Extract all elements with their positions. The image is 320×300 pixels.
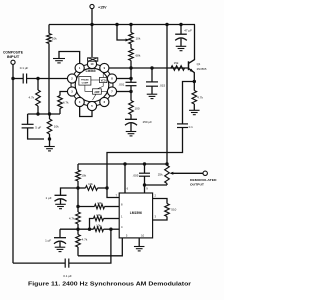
resistor 10k row A — [78, 182, 107, 190]
wire internal connections — [85, 73, 108, 100]
wire 10k to row A — [77, 181, 79, 188]
wire rail to R 10k upper — [48, 25, 50, 34]
wire 510 to pin 3 — [153, 217, 167, 221]
svg-text:47 µF: 47 µF — [184, 29, 192, 33]
svg-text:4.7k: 4.7k — [63, 100, 69, 104]
svg-text:5 µF: 5 µF — [35, 125, 41, 129]
resistor 4.7k input — [29, 90, 41, 106]
wire pin 9 line — [109, 67, 189, 69]
wire wiper to output — [171, 172, 203, 174]
junction rail/wiper — [115, 23, 118, 26]
svg-text:10k: 10k — [81, 174, 86, 178]
svg-text:9: 9 — [146, 187, 148, 191]
op-amp U1 LM565 body — [71, 64, 113, 106]
svg-text:10k: 10k — [97, 201, 102, 205]
svg-text:.001: .001 — [118, 82, 124, 86]
wire pin 2 to 510 — [153, 199, 167, 204]
wire pin 1 bracket — [59, 52, 80, 64]
wire pin 8 stub — [116, 78, 131, 80]
resistor 15k — [171, 61, 185, 71]
svg-text:10k: 10k — [96, 213, 101, 217]
svg-text:OUTPUT: OUTPUT — [190, 182, 204, 186]
wire cap to pin 2 — [27, 78, 68, 80]
node +15V supply terminal — [90, 4, 107, 24]
node B junction — [48, 112, 51, 115]
pin 1 U1 — [75, 63, 84, 72]
capacitor .001 — [118, 79, 136, 92]
potentiometer 10k — [129, 33, 141, 45]
svg-text:.005: .005 — [133, 173, 139, 177]
wire +15V rail — [49, 24, 195, 26]
resistor 510 — [165, 204, 177, 217]
transistor Q1 2N3565 — [189, 25, 207, 82]
pin labels U2 — [116, 187, 157, 238]
capacitor 1uF upper — [46, 195, 67, 204]
wire pin3 resistor to pin 3 — [60, 92, 68, 96]
pin 4 U1 — [75, 97, 84, 106]
junction carrier/bias row A — [105, 186, 108, 189]
svg-text:Q1: Q1 — [197, 62, 201, 66]
wire pot to 68k — [130, 44, 132, 49]
wire node B to pin3 resistor — [59, 109, 61, 115]
svg-text:1 µF: 1 µF — [45, 238, 51, 242]
wire node B line — [28, 113, 60, 115]
junction .015/pin9 — [150, 66, 153, 69]
wire node B down — [49, 114, 51, 119]
block amplifier — [93, 89, 102, 94]
wire +15 bus — [78, 163, 167, 165]
pin 8 U1 — [107, 74, 116, 83]
svg-text:INPUT: INPUT — [7, 55, 20, 59]
tab pin 10 index — [88, 58, 98, 61]
label COMPOSITE INPUT — [3, 50, 23, 59]
junction emitter node — [193, 80, 196, 83]
junction rail/47uF — [179, 23, 182, 26]
block VCO — [100, 77, 107, 82]
svg-text:.015: .015 — [159, 84, 165, 88]
svg-text:10k: 10k — [96, 224, 101, 228]
ground 47uF — [176, 46, 187, 50]
wire pin 7 stub — [116, 91, 131, 93]
wire row A to cap — [61, 188, 79, 195]
junction .005/pin9 LM1596 — [143, 183, 146, 186]
resistor 10k lower-left — [47, 119, 59, 134]
wire rail to pot — [130, 25, 132, 33]
capacitor 47uF — [175, 25, 192, 47]
wire 10k to ground node — [49, 134, 51, 139]
svg-text:68k: 68k — [136, 53, 141, 57]
ground pin 10 LM1596 — [134, 238, 145, 251]
junction row A — [76, 186, 79, 189]
junction pin7 node — [129, 90, 132, 93]
pin 5 U1 — [87, 101, 96, 110]
svg-text:LM565: LM565 — [86, 69, 96, 73]
svg-text:100: 100 — [135, 106, 140, 110]
wiper arrow — [126, 39, 130, 42]
svg-text:4.7k: 4.7k — [69, 217, 75, 221]
svg-text:LM1596: LM1596 — [130, 211, 142, 215]
resistor 10k upper-left — [47, 34, 57, 44]
svg-text:0.1 µF: 0.1 µF — [20, 66, 29, 70]
junction rail/long vertical — [165, 23, 168, 26]
pin 7 U1 — [107, 87, 116, 96]
wire long vertical +15 — [166, 25, 168, 165]
svg-text:7: 7 — [116, 193, 118, 197]
resistor 10k row C — [94, 224, 120, 232]
capacitor 0.1uF bottom — [63, 259, 72, 279]
wire left vertical — [12, 79, 14, 264]
resistor 4.7k ladder bottom — [76, 229, 88, 256]
svg-text:2N3565: 2N3565 — [197, 67, 207, 71]
capacitor 250uF — [125, 115, 152, 132]
svg-text:+15V: +15V — [98, 6, 107, 10]
wire pin1 riser — [90, 219, 94, 230]
svg-text:6: 6 — [127, 187, 129, 191]
ground divider — [44, 139, 55, 151]
pin 10 U1 — [87, 59, 96, 68]
wire row C — [60, 228, 94, 230]
svg-text:10k: 10k — [52, 37, 57, 41]
wire bottom rail right — [69, 229, 111, 263]
junction riser/row C — [88, 228, 91, 231]
svg-text:0.1 µF: 0.1 µF — [63, 274, 72, 278]
pin 3 U1 — [67, 87, 76, 96]
junction 4.7k/node B line — [36, 112, 39, 115]
label DEMODULATED OUTPUT — [190, 178, 217, 187]
svg-text:15k: 15k — [174, 61, 179, 65]
wire 10k to node B — [48, 44, 50, 115]
op-amp U2 LM1596 — [119, 193, 152, 238]
wire pin4 to pin5 — [80, 106, 92, 116]
wire pin 5 LM1596 — [78, 238, 122, 256]
svg-text:4.7k: 4.7k — [197, 95, 203, 99]
pin 6 U1 — [100, 97, 109, 106]
wire emitter to 0.1 cap — [183, 82, 195, 124]
pin 2 U1 — [67, 74, 76, 83]
wire input stem — [12, 64, 14, 78]
potentiometer 25k — [158, 165, 170, 185]
wiper arrow 25k — [170, 172, 174, 175]
svg-text:DEMODULATED: DEMODULATED — [190, 178, 217, 182]
wire input to cap — [13, 78, 23, 80]
wire pin 9 stub LM1596 — [144, 185, 146, 193]
capacitor .015 — [146, 68, 165, 94]
junction pin8 node — [129, 77, 132, 80]
svg-text:510: 510 — [171, 208, 176, 212]
resistor 10k row B — [78, 201, 119, 209]
resistor 10k ladder top — [76, 170, 87, 181]
capacitor .005 — [133, 164, 150, 185]
node input terminal — [11, 60, 15, 64]
ground 1uF lower — [55, 247, 66, 251]
svg-text:VCO: VCO — [101, 80, 106, 82]
wire 68k to pin9 line — [130, 61, 132, 69]
wire pin 10 to rail — [91, 25, 93, 58]
ground emitter resistor — [189, 104, 200, 115]
resistor 100 — [129, 92, 140, 115]
ground 1uF upper — [55, 204, 66, 208]
wire bus corner to 10k — [77, 164, 79, 170]
junction 68k/pin9 — [129, 66, 132, 69]
block phase comparator — [79, 77, 91, 86]
junction node A 4.7k tap — [36, 77, 39, 80]
svg-text:4.7k: 4.7k — [29, 96, 35, 100]
wire 68k node down — [130, 68, 132, 79]
junction input node — [11, 77, 14, 80]
svg-text:Figure 11. 2400 Hz Synchronou: Figure 11. 2400 Hz Synchronous AM Demodu… — [28, 281, 192, 287]
svg-text:250 µF: 250 µF — [143, 120, 153, 124]
resistor 10k pin 1 — [94, 213, 120, 221]
svg-text:AMP: AMP — [94, 91, 100, 94]
wire 0.1 cap to pin7 LM1596 — [107, 128, 183, 189]
wire 4.7k to node B line — [37, 106, 39, 114]
resistor 4.7k ladder — [69, 207, 80, 230]
junction bus/pin6 — [123, 162, 126, 165]
junction bus/pot 25k — [165, 162, 168, 165]
junction ground node — [48, 137, 51, 140]
wire pin 6 stub LM1596 — [124, 164, 126, 193]
wire wiper feed — [117, 25, 126, 41]
node DEMODULATED OUTPUT terminal — [203, 171, 207, 175]
capacitor 1uF lower — [45, 229, 66, 247]
svg-text:COMP: COMP — [82, 83, 89, 85]
capacitor 0.1 carrier — [177, 124, 193, 129]
svg-text:4.7k: 4.7k — [82, 238, 88, 242]
svg-text:10: 10 — [141, 234, 144, 238]
junction row B — [76, 205, 79, 208]
svg-text:10k: 10k — [54, 125, 59, 129]
svg-text:10k: 10k — [136, 37, 141, 41]
svg-text:10k: 10k — [88, 182, 93, 186]
ground 250uF — [126, 132, 137, 136]
junction row C/input riser — [109, 228, 112, 231]
label Figure 11 caption — [28, 281, 192, 287]
ground .015 — [147, 94, 158, 98]
svg-text:1 µF: 1 µF — [46, 196, 52, 200]
wire bottom rail left — [13, 262, 65, 264]
resistor 4.7k emitter — [192, 82, 203, 105]
svg-text:PHASE: PHASE — [81, 78, 89, 81]
wire .005 node to pot bottom — [145, 184, 168, 186]
wire node A down — [37, 79, 39, 91]
svg-text:3: 3 — [155, 215, 157, 219]
label LM565 — [86, 69, 96, 73]
resistor 68k — [129, 49, 141, 61]
wire row A to row B — [77, 188, 79, 207]
svg-text:2: 2 — [155, 194, 157, 198]
wire to pin 7 LM1596 — [107, 188, 119, 198]
pin 9 U1 — [100, 63, 109, 72]
svg-text:0.1: 0.1 — [189, 125, 194, 129]
svg-text:25k: 25k — [158, 172, 163, 176]
resistor 4.7k pin3 — [58, 96, 69, 109]
capacitor 0.1uF input — [20, 66, 29, 84]
junction rail/R pot — [129, 23, 132, 26]
capacitor 5uF — [22, 114, 44, 139]
ground pin 1 — [53, 59, 65, 63]
junction bus/.005 — [143, 162, 146, 165]
svg-text:COMPOSITE: COMPOSITE — [3, 50, 23, 54]
junction row C — [76, 228, 79, 231]
junction rail/pin10 — [90, 23, 93, 26]
